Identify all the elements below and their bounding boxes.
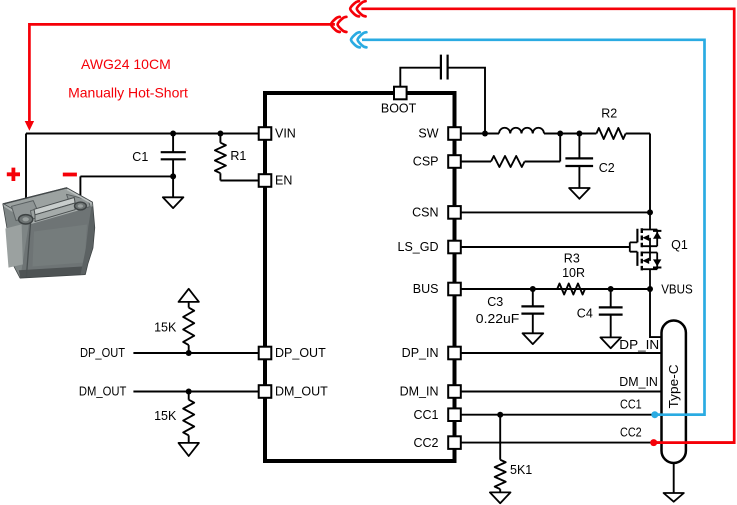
pin CSN [448, 206, 461, 219]
ground (Type-C) [664, 493, 684, 502]
supply arrow (15K DP) [179, 289, 199, 302]
wire SW net [461, 134, 650, 213]
wire Type-C shield to ground [673, 463, 675, 493]
svg-text:DP_IN: DP_IN [402, 346, 439, 360]
wire-break symbol (red, CC2 lead) [350, 1, 359, 16]
svg-text:DM_OUT: DM_OUT [275, 385, 328, 399]
pin BOOT [394, 87, 407, 100]
wire CC2 net [461, 442, 662, 444]
resistor R-sense [491, 156, 525, 167]
svg-text:10R: 10R [562, 266, 585, 280]
node junction DP_OUT/15K [186, 350, 192, 356]
wire DP_IN net [461, 352, 662, 354]
wire CSN net [461, 211, 650, 213]
wire battery minus to C1 bottom [80, 176, 173, 207]
wire-break symbol (blue, CC1 lead) [351, 32, 360, 47]
svg-text:0.22uF: 0.22uF [476, 312, 520, 326]
svg-text:C3: C3 [487, 295, 503, 309]
capacitor C2 [578, 134, 580, 189]
wire blue hot-short lead to CC1 [362, 40, 705, 415]
svg-text:BUS: BUS [413, 282, 439, 296]
wire DP_OUT net [133, 352, 258, 354]
svg-text:5K1: 5K1 [510, 463, 532, 477]
transistor Q1 (back-to-back MOSFETs) [630, 212, 662, 289]
node junction CC1/5K1 [497, 412, 503, 418]
svg-text:Type-C: Type-C [666, 364, 681, 408]
svg-text:LS_GD: LS_GD [398, 240, 439, 254]
svg-text:C4: C4 [577, 307, 593, 321]
capacitor C-boot [441, 55, 448, 80]
svg-text:15K: 15K [154, 409, 177, 423]
svg-text:C2: C2 [599, 161, 615, 175]
svg-text:R3: R3 [564, 252, 580, 266]
capacitor C1 [172, 134, 174, 198]
svg-text:VIN: VIN [275, 127, 296, 141]
capacitor C3 [532, 289, 534, 333]
wire DM_OUT net [133, 391, 258, 393]
IC U1 body [265, 93, 455, 461]
wire red over connector + junction [654, 441, 734, 444]
svg-text:CSN: CSN [412, 206, 438, 220]
svg-text:DP_OUT: DP_OUT [275, 346, 326, 360]
wire blue over connector + junction [655, 413, 705, 416]
node junction R1 top [217, 131, 223, 137]
wire BUS/VBUS net [461, 289, 662, 337]
wire LS_GD to Q1 gate [461, 246, 630, 248]
node junction C1 bottom [170, 173, 176, 179]
ground (5K1) [490, 492, 511, 503]
ground (C3) [523, 333, 544, 344]
svg-text:EN: EN [275, 174, 292, 188]
resistor 5K1 (CC1 pull-down) [499, 415, 501, 493]
pin DM_IN [448, 385, 461, 398]
pin DM_OUT [259, 385, 272, 398]
svg-text:R1: R1 [230, 149, 246, 163]
inductor L1 [499, 128, 544, 134]
arrow (15K DM) [179, 443, 199, 456]
svg-text:BOOT: BOOT [381, 101, 417, 115]
wire DM_IN net [461, 391, 662, 393]
pin DP_IN [448, 347, 461, 360]
node junction VBUS [647, 286, 653, 292]
svg-text:CC2: CC2 [620, 425, 642, 439]
pin EN [259, 174, 272, 187]
svg-text:CC1: CC1 [620, 397, 642, 411]
svg-text:CSP: CSP [413, 155, 439, 169]
battery (12V car battery illustration) [3, 188, 94, 278]
ground (C1) [163, 197, 184, 208]
node junction C4 [608, 286, 614, 292]
svg-text:R2: R2 [601, 107, 617, 121]
svg-text:VBUS: VBUS [661, 282, 693, 296]
wire red hot-short lead to CC2 [361, 9, 734, 443]
resistor 15K (DP pull-up) [188, 302, 190, 353]
node junction CSN/Q1 drain [647, 209, 653, 215]
svg-text:15K: 15K [154, 321, 177, 335]
pin LS_GD [448, 241, 461, 254]
pin CC2 [448, 436, 461, 449]
svg-text:AWG24 10CM: AWG24 10CM [81, 56, 171, 72]
pin SW [448, 127, 461, 140]
svg-text:CC2: CC2 [413, 436, 438, 450]
pin VIN [259, 127, 272, 140]
svg-text:DP_OUT: DP_OUT [80, 346, 125, 360]
resistor 15K (DM pull-down) [188, 392, 190, 443]
svg-text:SW: SW [418, 127, 438, 141]
pin CC1 [448, 408, 461, 421]
svg-text:DP_IN: DP_IN [619, 338, 659, 352]
resistor R2 [596, 128, 625, 139]
ground (C4) [600, 337, 621, 348]
node junction L/CSP [557, 131, 563, 137]
ground (C2) [569, 188, 590, 199]
node junction DM_OUT/15K [186, 389, 192, 395]
node junction SW/boot [482, 131, 488, 137]
bootstrap wire BOOT to SW [400, 68, 485, 134]
svg-text:DM_IN: DM_IN [400, 385, 439, 399]
svg-text:Manually Hot-Short: Manually Hot-Short [68, 85, 188, 101]
resistor R3 [557, 284, 585, 295]
battery minus terminal mark [63, 173, 77, 177]
svg-text:Q1: Q1 [671, 238, 688, 252]
svg-text:DM_IN: DM_IN [619, 375, 658, 389]
wire VIN net: battery + to VIN pin [26, 134, 259, 220]
resistor R1 [220, 134, 258, 181]
capacitor C4 [610, 289, 612, 337]
svg-text:DM_OUT: DM_OUT [79, 384, 127, 398]
wire CC1 net [461, 414, 662, 416]
svg-text:CC1: CC1 [413, 408, 438, 422]
node junction L/C2 [576, 131, 582, 137]
node junction C3 [530, 286, 536, 292]
battery plus terminal mark [7, 168, 20, 181]
svg-text:C1: C1 [132, 150, 148, 164]
pin BUS [448, 283, 461, 296]
wire-break symbol (red, battery lead) [331, 17, 340, 32]
node junction C1 top [170, 131, 176, 137]
pin CSP [448, 155, 461, 168]
pin DP_OUT [259, 347, 272, 360]
wire red AWG24 hot-short lead from battery + [29, 24, 335, 122]
wire CSP net + sense resistor [461, 134, 560, 162]
Type-C receptacle J1 [662, 321, 686, 464]
